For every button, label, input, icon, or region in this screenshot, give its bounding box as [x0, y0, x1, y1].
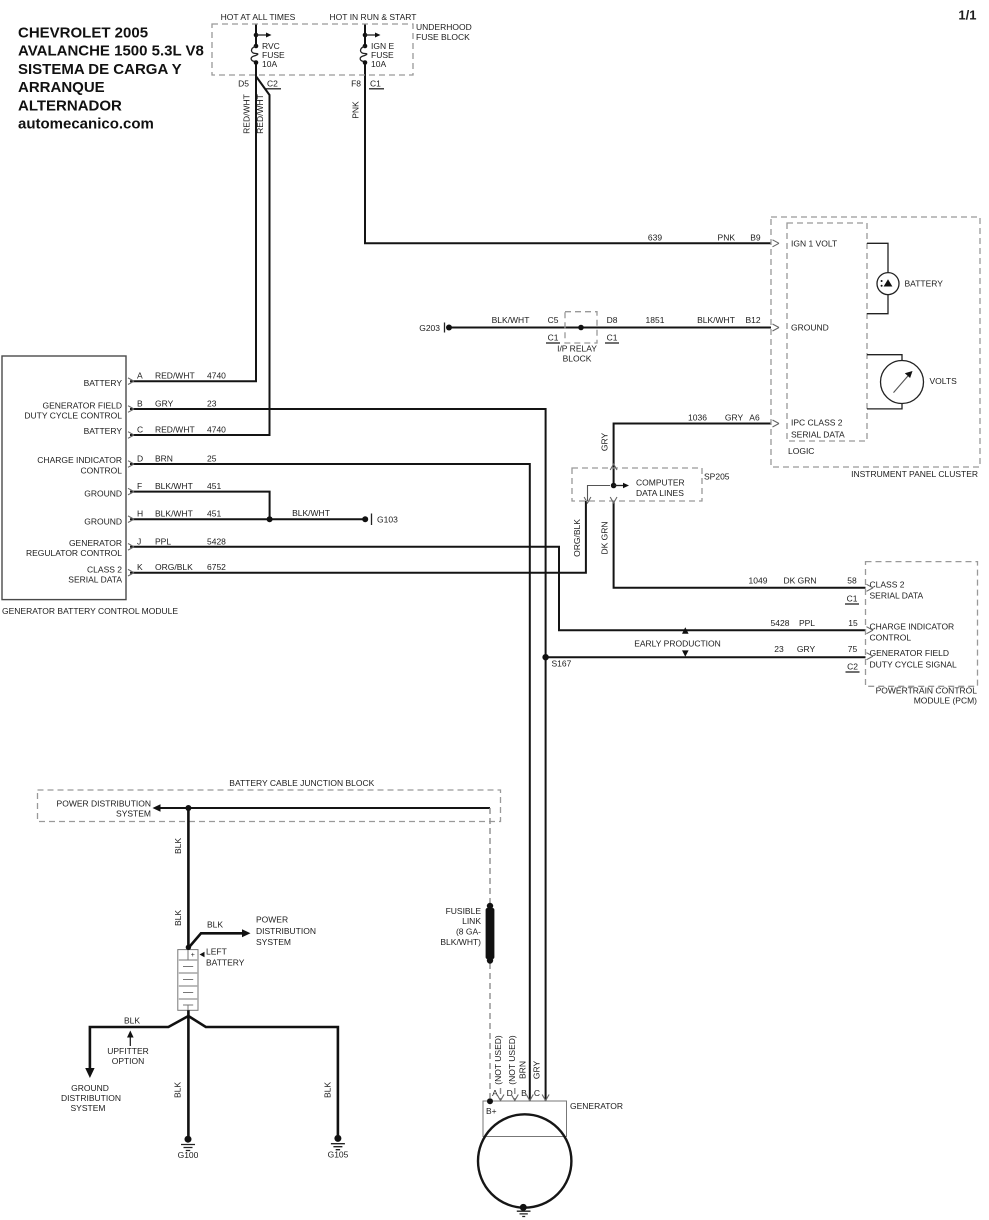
svg-text:PPL: PPL — [155, 536, 171, 546]
svg-text:HOT AT ALL TIMES: HOT AT ALL TIMES — [221, 12, 296, 22]
svg-text:1/1: 1/1 — [958, 8, 976, 23]
svg-text:C: C — [137, 424, 143, 434]
svg-text:B: B — [137, 398, 143, 408]
svg-text:BLOCK: BLOCK — [563, 354, 592, 364]
svg-text:BLK: BLK — [124, 1016, 140, 1026]
svg-text:HOT IN RUN & START: HOT IN RUN & START — [330, 12, 417, 22]
svg-text:BATTERY: BATTERY — [206, 958, 245, 968]
svg-text:H: H — [137, 509, 143, 519]
svg-text:BATTERY CABLE JUNCTION BLOCK: BATTERY CABLE JUNCTION BLOCK — [229, 778, 374, 788]
svg-text:GROUND: GROUND — [71, 1083, 109, 1093]
svg-text:LINK: LINK — [462, 916, 481, 926]
svg-text:SP205: SP205 — [704, 472, 730, 482]
svg-text:BLK: BLK — [207, 920, 223, 930]
svg-text:PPL: PPL — [799, 618, 815, 628]
svg-text:SERIAL DATA: SERIAL DATA — [791, 429, 845, 439]
svg-text:ORG/BLK: ORG/BLK — [155, 562, 193, 572]
svg-text:639: 639 — [648, 233, 662, 243]
svg-text:5428: 5428 — [207, 536, 226, 546]
svg-text:PNK: PNK — [351, 101, 361, 119]
svg-text:GENERATOR FIELD: GENERATOR FIELD — [870, 648, 950, 658]
svg-text:C1: C1 — [548, 333, 559, 343]
svg-text:S167: S167 — [552, 659, 572, 669]
svg-text:G203: G203 — [419, 323, 440, 333]
svg-text:B12: B12 — [745, 315, 760, 325]
svg-text:C1: C1 — [847, 594, 858, 604]
svg-text:1036: 1036 — [688, 413, 707, 423]
svg-text:CHARGE INDICATOR: CHARGE INDICATOR — [870, 622, 955, 632]
svg-text:DUTY CYCLE CONTROL: DUTY CYCLE CONTROL — [24, 411, 122, 421]
svg-text:10A: 10A — [262, 59, 277, 69]
svg-text:MODULE (PCM): MODULE (PCM) — [914, 695, 977, 705]
svg-text:1049: 1049 — [749, 576, 768, 586]
svg-text:4740: 4740 — [207, 424, 226, 434]
svg-text:10A: 10A — [371, 59, 386, 69]
svg-text:IGN 1 VOLT: IGN 1 VOLT — [791, 239, 837, 249]
svg-text:23: 23 — [207, 398, 217, 408]
svg-text:REGULATOR CONTROL: REGULATOR CONTROL — [26, 548, 122, 558]
svg-text:RED/WHT: RED/WHT — [255, 94, 265, 134]
svg-text:automecanico.com: automecanico.com — [18, 116, 154, 133]
svg-text:FUSIBLE: FUSIBLE — [446, 906, 482, 916]
svg-text:SISTEMA DE CARGA Y: SISTEMA DE CARGA Y — [18, 61, 182, 78]
svg-text:C: C — [534, 1088, 540, 1098]
svg-text:AVALANCHE 1500 5.3L V8: AVALANCHE 1500 5.3L V8 — [18, 43, 204, 60]
svg-text:CLASS 2: CLASS 2 — [87, 564, 122, 574]
svg-text:GROUND: GROUND — [84, 516, 122, 526]
svg-text:6752: 6752 — [207, 562, 226, 572]
svg-text:GENERATOR: GENERATOR — [570, 1101, 623, 1111]
svg-text:BLK: BLK — [323, 1082, 333, 1098]
svg-text:CHEVROLET 2005: CHEVROLET 2005 — [18, 25, 148, 42]
svg-text:UPFITTER: UPFITTER — [107, 1046, 149, 1056]
svg-text:GROUND: GROUND — [791, 323, 829, 333]
svg-text:COMPUTER: COMPUTER — [636, 478, 685, 488]
svg-text:DATA LINES: DATA LINES — [636, 488, 684, 498]
svg-text:FUSE BLOCK: FUSE BLOCK — [416, 32, 470, 42]
svg-text:451: 451 — [207, 481, 221, 491]
svg-text:A: A — [492, 1088, 498, 1098]
svg-text:SYSTEM: SYSTEM — [116, 808, 151, 818]
svg-text:BRN: BRN — [155, 454, 173, 464]
svg-text:RED/WHT: RED/WHT — [155, 371, 195, 381]
svg-text:LOGIC: LOGIC — [788, 446, 814, 456]
svg-text:UNDERHOOD: UNDERHOOD — [416, 22, 472, 32]
svg-text:CLASS 2: CLASS 2 — [870, 580, 905, 590]
svg-text:POWER: POWER — [256, 915, 288, 925]
svg-text:A: A — [137, 371, 143, 381]
svg-text:4740: 4740 — [207, 371, 226, 381]
svg-text:J: J — [137, 536, 141, 546]
svg-text:5428: 5428 — [771, 618, 790, 628]
svg-text:1851: 1851 — [646, 315, 665, 325]
svg-text:VOLTS: VOLTS — [930, 376, 958, 386]
svg-text:G100: G100 — [178, 1150, 199, 1160]
svg-text:DISTRIBUTION: DISTRIBUTION — [61, 1093, 121, 1103]
svg-text:(NOT USED): (NOT USED) — [493, 1035, 503, 1085]
svg-text:G103: G103 — [377, 515, 398, 525]
svg-text:GENERATOR BATTERY CONTROL MODU: GENERATOR BATTERY CONTROL MODULE — [2, 606, 178, 616]
svg-text:BATTERY: BATTERY — [905, 278, 944, 288]
svg-text:BATTERY: BATTERY — [84, 426, 123, 436]
svg-text:RED/WHT: RED/WHT — [242, 94, 252, 134]
svg-text:C2: C2 — [267, 79, 278, 89]
svg-text:IPC CLASS 2: IPC CLASS 2 — [791, 417, 843, 427]
svg-text:C5: C5 — [548, 315, 559, 325]
svg-text:BLK/WHT: BLK/WHT — [492, 315, 530, 325]
svg-text:GENERATOR FIELD: GENERATOR FIELD — [42, 400, 122, 410]
svg-text:23: 23 — [774, 644, 784, 654]
svg-text:CONTROL: CONTROL — [870, 633, 912, 643]
svg-text:(NOT USED): (NOT USED) — [507, 1035, 517, 1085]
svg-text:POWER DISTRIBUTION: POWER DISTRIBUTION — [57, 798, 151, 808]
svg-text:ALTERNADOR: ALTERNADOR — [18, 98, 122, 115]
svg-text:GENERATOR: GENERATOR — [69, 538, 122, 548]
svg-text:D: D — [137, 454, 143, 464]
svg-text:CONTROL: CONTROL — [80, 465, 122, 475]
svg-text:SYSTEM: SYSTEM — [71, 1103, 106, 1113]
svg-text:451: 451 — [207, 509, 221, 519]
svg-text:C1: C1 — [607, 333, 618, 343]
svg-text:C2: C2 — [847, 662, 858, 672]
svg-text:D5: D5 — [238, 79, 249, 89]
svg-text:OPTION: OPTION — [112, 1056, 145, 1066]
svg-text:GRY: GRY — [600, 433, 610, 452]
svg-text:I/P RELAY: I/P RELAY — [557, 344, 597, 354]
svg-text:SYSTEM: SYSTEM — [256, 937, 291, 947]
svg-text:BLK/WHT: BLK/WHT — [292, 508, 330, 518]
svg-text:58: 58 — [847, 576, 857, 586]
svg-text:DK GRN: DK GRN — [783, 576, 816, 586]
svg-text:GRY: GRY — [532, 1061, 542, 1080]
svg-text:A6: A6 — [749, 413, 760, 423]
svg-text:BRN: BRN — [518, 1061, 528, 1079]
svg-text:25: 25 — [207, 454, 217, 464]
svg-text:75: 75 — [848, 644, 858, 654]
svg-text:ORG/BLK: ORG/BLK — [572, 519, 582, 557]
svg-text:15: 15 — [848, 618, 858, 628]
svg-text:EARLY PRODUCTION: EARLY PRODUCTION — [634, 638, 721, 648]
svg-text:PNK: PNK — [718, 233, 736, 243]
svg-text:(8 GA-: (8 GA- — [456, 927, 481, 937]
svg-text:BLK/WHT): BLK/WHT) — [440, 937, 481, 947]
svg-text:DISTRIBUTION: DISTRIBUTION — [256, 926, 316, 936]
svg-text:BATTERY: BATTERY — [84, 378, 123, 388]
svg-text:GRY: GRY — [155, 398, 174, 408]
svg-text:F8: F8 — [351, 79, 361, 89]
svg-text:BLK: BLK — [173, 1082, 183, 1098]
svg-text:BLK: BLK — [173, 910, 183, 926]
svg-text:F: F — [137, 481, 142, 491]
svg-text:BLK/WHT: BLK/WHT — [155, 481, 193, 491]
svg-text:BLK: BLK — [173, 838, 183, 854]
svg-text:GRY: GRY — [797, 644, 816, 654]
svg-text:G105: G105 — [328, 1150, 349, 1160]
svg-text:DUTY CYCLE SIGNAL: DUTY CYCLE SIGNAL — [870, 659, 958, 669]
svg-text:+: + — [191, 952, 195, 959]
svg-text:C1: C1 — [370, 79, 381, 89]
svg-text:B+: B+ — [486, 1106, 497, 1116]
svg-text:POWERTRAIN CONTROL: POWERTRAIN CONTROL — [876, 686, 978, 696]
svg-text:CHARGE INDICATOR: CHARGE INDICATOR — [37, 455, 122, 465]
svg-text:INSTRUMENT PANEL CLUSTER: INSTRUMENT PANEL CLUSTER — [851, 469, 978, 479]
svg-text:GROUND: GROUND — [84, 489, 122, 499]
svg-text:K: K — [137, 562, 143, 572]
svg-text:D8: D8 — [607, 315, 618, 325]
svg-text:B9: B9 — [750, 233, 761, 243]
svg-text:SERIAL DATA: SERIAL DATA — [68, 575, 122, 585]
svg-text:DK GRN: DK GRN — [600, 521, 610, 554]
svg-text:LEFT: LEFT — [206, 947, 227, 957]
svg-text:SERIAL DATA: SERIAL DATA — [870, 591, 924, 601]
svg-text:B: B — [521, 1088, 527, 1098]
svg-text:GRY: GRY — [725, 413, 744, 423]
svg-text:RED/WHT: RED/WHT — [155, 424, 195, 434]
svg-text:BLK/WHT: BLK/WHT — [697, 315, 735, 325]
svg-text:BLK/WHT: BLK/WHT — [155, 509, 193, 519]
svg-text:ARRANQUE: ARRANQUE — [18, 79, 105, 96]
